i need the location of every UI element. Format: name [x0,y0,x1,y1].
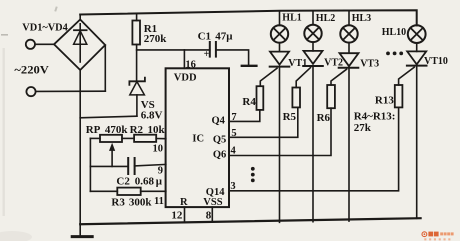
svg-text:8: 8 [206,209,212,221]
svg-text:R13: R13 [375,94,394,106]
svg-text:27k: 27k [354,122,372,134]
svg-text:Q6: Q6 [213,149,226,160]
svg-text:C1: C1 [198,30,211,42]
dots horizontal between VT3 and VT10 [251,52,403,183]
svg-text:3: 3 [230,181,235,192]
svg-text:11: 11 [154,196,164,207]
RP wiper arrow [111,149,113,167]
svg-text:μ: μ [156,176,163,188]
svg-text:9: 9 [158,166,163,177]
svg-text:47μ: 47μ [215,30,233,42]
op IC box [166,68,229,207]
svg-text:16: 16 [185,60,196,71]
svg-text:IC: IC [192,134,204,145]
thyristor VT1 [279,43,281,52]
svg-text:Q4: Q4 [212,116,226,127]
capacitor C1 [209,42,211,57]
svg-text:HL2: HL2 [316,13,335,24]
svg-text:R6: R6 [317,112,331,124]
resistor R3 [90,190,117,192]
AC terminal lower [26,87,35,96]
svg-text:0.68: 0.68 [135,176,155,188]
svg-text:R3: R3 [111,197,125,209]
wire pin16 stub [183,50,185,68]
svg-text:C2: C2 [116,176,130,188]
svg-text:5: 5 [231,128,236,139]
svg-text:VT2: VT2 [324,58,343,69]
svg-text:7: 7 [231,112,236,123]
svg-text:470k: 470k [105,124,128,136]
wire main left rail down from bridge [79,70,81,236]
svg-text:R2: R2 [130,124,144,136]
svg-text:12: 12 [171,209,183,221]
lamp HL1 [279,11,281,26]
wire pin7 Q4 to R4 [229,110,260,122]
wire pin3 Q14 to R13 [229,107,399,190]
thyristor VT2 [312,42,314,51]
svg-text:RP: RP [86,124,101,136]
resistor R13 [395,85,403,107]
wire pin8 stub [211,207,213,222]
zener VS [129,78,145,85]
svg-text:+: + [204,49,210,60]
svg-text:VT10: VT10 [424,56,448,67]
lamp HL3 [348,11,350,26]
thyristor VT3 [348,43,350,54]
potentiometer RP [90,137,100,139]
svg-text:6.8V: 6.8V [141,110,163,122]
wire terminal to bridge left [35,43,54,45]
svg-text:270k: 270k [144,33,168,45]
svg-text:10k: 10k [148,124,166,136]
wire VDD rail to C1 [137,49,210,51]
resistor R5 [292,88,300,108]
lamp HL10 [408,25,426,43]
capacitor C2 [90,165,128,167]
svg-text:R5: R5 [283,111,297,123]
ground [72,235,92,238]
svg-text:HL3: HL3 [352,13,371,24]
lamp HL2 [312,11,314,25]
resistor R1 [136,14,138,21]
AC terminal upper [26,40,35,49]
svg-text:10: 10 [153,144,164,155]
svg-text:~220V: ~220V [14,63,49,77]
wire terminal to bridge right corner [36,90,106,92]
svg-text:R4: R4 [242,96,256,108]
svg-text:VT3: VT3 [360,59,379,70]
wire zener bottom to left rail [80,116,137,118]
wire pin12 stub [184,207,186,223]
svg-text:R: R [180,197,188,208]
svg-text:VT1: VT1 [288,58,307,69]
svg-text:VSS: VSS [203,197,222,208]
svg-text:300k: 300k [129,197,153,209]
svg-text:VD1~VD4: VD1~VD4 [22,22,68,33]
watermark logo [422,232,454,241]
wire top bus [80,10,417,25]
wire pin4 Q6 to R6 [229,108,331,155]
bridge rectifier VD1~VD4 [54,20,105,71]
svg-text:HL1: HL1 [282,12,301,23]
left scan smudge [3,48,5,216]
svg-text:R4~R13:: R4~R13: [354,111,396,123]
resistor R4 [257,86,264,110]
resistor R2 [134,135,156,142]
svg-text:Q5: Q5 [213,134,226,145]
svg-text:VDD: VDD [174,72,197,83]
wire C1 right to bar [216,50,249,66]
wire pin5 Q5 to R5 [229,107,298,137]
wire left sub-rail [89,138,91,191]
wire bottom bus [80,218,420,224]
svg-text:HL10: HL10 [382,27,406,38]
resistor R6 [327,85,335,108]
thyristor VT10 [416,43,418,51]
wire bridge top stub [79,15,81,21]
dots vertical near pin3 [251,167,255,171]
diode inside bridge [79,24,81,62]
svg-text:4: 4 [231,145,237,156]
